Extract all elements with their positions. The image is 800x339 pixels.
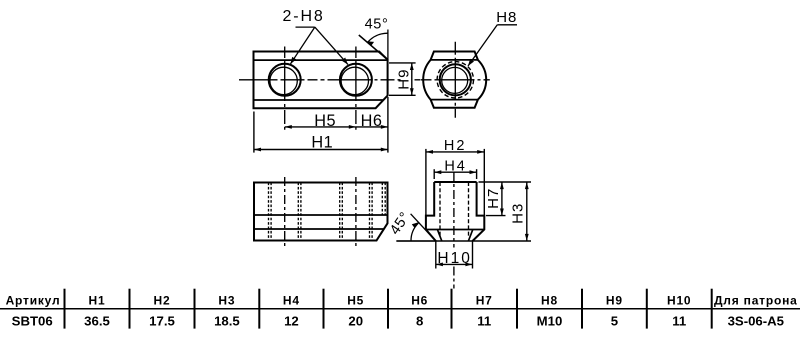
H7 bottom extension line [486,215,506,217]
svg-text:H2: H2 [444,138,467,154]
svg-text:H8: H8 [496,9,517,26]
H8 leader line [468,25,497,66]
dimension H2 [426,149,484,216]
section vertical centerline [453,172,455,248]
H10 left extension line [435,241,437,269]
vertical centerline hole 2 [355,47,357,130]
svg-text:Артикул: Артикул [6,293,61,307]
svg-text:H1: H1 [89,293,106,307]
plan view line B [254,228,384,230]
section top face [434,181,476,183]
svg-text:H10: H10 [437,250,471,267]
svg-text:45°: 45° [365,17,389,33]
dimension H4 [434,169,476,179]
svg-text:H6: H6 [361,112,383,130]
H7/H3 top extension line [479,181,532,183]
dimension H10 [436,241,473,269]
end view bottom chamfer line [431,99,478,101]
svg-text:H1: H1 [311,133,333,151]
svg-text:H10: H10 [667,293,691,307]
vertical centerline hole 1 [284,47,286,130]
tapped hole bore circle [442,67,468,93]
bottom chamfer edge line [254,99,383,101]
table data row [12,314,784,329]
svg-text:M10: M10 [537,314,563,329]
svg-text:Для патрона: Для патрона [714,293,798,307]
H4 right extension line [476,169,478,179]
H9 top extension line [389,62,416,64]
45 deg baseline (bottom) [396,240,435,242]
dimension H5 (between hole centers) [285,126,356,128]
H2 left extension line [425,149,427,216]
svg-text:H8: H8 [541,293,558,307]
end view vertical centerline [454,42,456,118]
hole 1 inner circle [270,67,297,94]
H1 left extension line [253,112,255,153]
plan view outline with chamfered corner [254,183,388,241]
hole 1 hidden lines [268,183,270,241]
tapped hole chamfer circle [440,64,471,95]
svg-text:H3: H3 [218,293,235,307]
countersink right diagonal [468,230,472,242]
H9 dimension line [411,63,413,95]
dimension H6 (hole 2 to right end) [356,126,388,128]
svg-text:11: 11 [672,314,686,329]
hole 2 outer circle [340,64,372,96]
H4 dimension line [434,171,476,173]
H4 left extension line [433,169,435,179]
svg-text:H5: H5 [347,293,364,307]
H2 dimension line [426,151,484,153]
45 deg chamfer extension diagonal [359,35,388,60]
section right side profile [473,182,485,241]
svg-text:H3: H3 [509,203,526,224]
thread circle (dashed) [437,62,473,98]
dimension H9 (right of view 1) [389,63,416,95]
svg-text:8: 8 [416,314,423,329]
plan view centerline hole 1 [284,177,286,248]
leader to hole 2 [315,27,348,65]
svg-text:36.5: 36.5 [84,314,110,329]
table header row [6,293,798,307]
svg-text:11: 11 [477,314,491,329]
H10 dimension line [436,263,473,265]
H9 bottom extension line [389,94,416,96]
svg-text:12: 12 [284,314,299,329]
svg-text:18.5: 18.5 [214,314,240,329]
body outline with right-end chamfers [254,52,388,109]
svg-text:20: 20 [348,314,363,329]
plan view line A [254,214,388,216]
hole hidden line left [439,182,441,237]
svg-text:H7: H7 [476,293,493,307]
hole 1 outer circle [269,64,301,96]
svg-text:H2: H2 [154,293,171,307]
hole 2 hidden lines [339,183,341,241]
leader shoulder for 2-H8 [296,26,315,28]
leader to hole 1 [290,27,315,64]
end view horizontal centerline [421,79,490,81]
svg-text:SBT06: SBT06 [12,314,53,329]
plan view centerline hole 2 [355,177,357,248]
hole 2 inner circle [341,67,368,94]
dimension H7 [479,182,532,216]
H2 right extension line [483,149,485,216]
H6/H1 right extension line [387,97,389,153]
svg-text:3S-06-A5: 3S-06-A5 [728,314,784,329]
table header separator line [0,308,800,310]
H7 dimension line [501,182,503,216]
flange bottom line [426,229,484,231]
countersink left diagonal [437,230,441,242]
svg-text:17.5: 17.5 [149,314,175,329]
end view top chamfer line [431,59,478,61]
45 deg arc with arrow (bottom) [411,223,418,241]
end view outline (barrel shape) [423,52,486,108]
H8 leader underline [497,24,517,26]
end chamfer hidden lines [381,183,383,216]
svg-text:H9: H9 [395,68,412,89]
svg-text:H4: H4 [283,293,300,307]
45 deg arc with arrow [368,33,388,42]
svg-text:5: 5 [611,314,618,329]
bottom face baseline (with extensions) [396,240,531,242]
svg-text:H4: H4 [444,158,467,174]
dimension H1 (overall length) [254,149,388,151]
H10 right extension line [472,241,474,269]
svg-text:2-H8: 2-H8 [282,8,324,25]
table column lines [64,289,66,329]
45 deg vertical reference line [387,30,389,60]
top chamfer edge line [254,59,387,61]
section left side profile [426,182,436,241]
hole hidden line right [468,182,470,237]
45 deg chamfer extension diagonal (bottom) [411,214,436,241]
svg-text:H9: H9 [606,293,623,307]
svg-text:H6: H6 [411,293,428,307]
svg-text:H5: H5 [314,112,336,130]
dimension H3 [526,182,528,241]
horizontal centerline [239,79,420,81]
svg-text:H7: H7 [485,188,502,209]
